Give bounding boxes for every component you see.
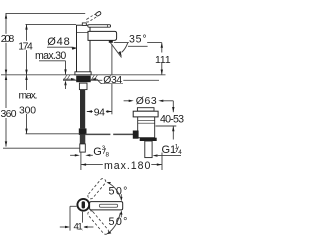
label 174 (17, 41, 34, 50)
node: arrow down tip at deck (line B above) (25, 70, 27, 75)
node: arrow up tip at 174 line (25, 24, 27, 29)
spout (88, 31, 117, 40)
35° angle: flow direction line (110, 42, 122, 58)
label 360 (0, 108, 18, 118)
wire: dimension line A (208 above deck / 360 below deck) (5, 13, 7, 146)
waste tailpipe G1 1/4 (145, 141, 152, 158)
node: cartridge cap seam (77, 32, 91, 34)
dimension 94 (87, 111, 112, 113)
label 35° (129, 35, 147, 44)
hex connector at hose end (79, 128, 87, 135)
dimension Ø34: right arrow and leader (91, 78, 96, 80)
deck hatching left (64, 75, 71, 81)
node: arrow down tip at short hose line (25, 129, 27, 134)
label 208 (0, 34, 15, 43)
deck (counter) top line (1, 74, 166, 76)
lever rotated +50° up (dashed) (87, 178, 107, 200)
dimension 40-53 bottom segment (156, 125, 177, 127)
wire: extension line top (208 level) (6, 12, 86, 14)
svg-text:50°: 50° (109, 186, 128, 198)
label 94 (93, 107, 106, 116)
dimension 111 (spout outlet above deck) (161, 43, 163, 75)
mounting nut below deck (76, 76, 91, 83)
dimension arrows at G3/8 fitting (70, 154, 76, 156)
dimension Ø63: left arrow (124, 100, 131, 102)
node: max30 arrow below deck pointing up (64, 80, 66, 85)
supply block under nut (79, 83, 87, 90)
svg-text:40-53: 40-53 (160, 113, 184, 125)
wire: long hose reference line (360 level) (3, 147, 80, 149)
lever slot (dark) (82, 201, 85, 208)
svg-text:Ø63: Ø63 (136, 96, 157, 107)
lever rotated 50° down (dashed) (87, 210, 110, 236)
node: arrow down tip at deck (line A above) (5, 70, 7, 75)
waste bottom nut (140, 138, 157, 141)
svg-text:Ø48: Ø48 (47, 36, 70, 48)
svg-text:Ø34: Ø34 (103, 75, 122, 86)
lever width dimension arrows at tip (120, 194, 122, 197)
node: lever pivot bump (82, 23, 86, 26)
node: arrow up tip at 208 line (5, 13, 7, 18)
base flange above deck (75, 72, 91, 75)
svg-text:max.: max. (19, 91, 38, 102)
pop-up waste pull rod (85, 133, 110, 135)
pop-up waste flange (133, 111, 158, 117)
svg-text:max.30: max.30 (35, 50, 66, 62)
dimension 41 extension lines (70, 205, 77, 207)
dimension Ø63: right arrow, leader to 40-53 (158, 100, 163, 102)
label 111 (154, 53, 172, 64)
svg-text:max.180: max.180 (104, 160, 150, 172)
node: arrow down tip at hose end line (5, 141, 7, 146)
cartridge circle (top view) (77, 199, 89, 211)
swing arc down with arrowheads (107, 213, 120, 234)
svg-text:360: 360 (1, 109, 17, 120)
label Ø34 (102, 76, 123, 84)
svg-text:8: 8 (106, 151, 110, 158)
dimension 40-53 top segment (172, 101, 174, 112)
svg-text:208: 208 (1, 34, 15, 45)
aerator (mousseur) (109, 40, 113, 42)
svg-text:300: 300 (19, 106, 36, 117)
svg-text:94: 94 (94, 108, 105, 119)
svg-text:4: 4 (178, 149, 182, 156)
hose end fitting (dark) (80, 135, 86, 144)
lever handle raised 35° (dashed) (86, 11, 102, 23)
label 41 (72, 223, 84, 231)
pop-up waste plug (137, 108, 154, 112)
wire: short hose reference line (max300 level) (26, 133, 81, 135)
dimension Ø34: left arrow (63, 78, 73, 80)
deck bottom line (63, 79, 159, 81)
faucet body (side view) (77, 25, 91, 72)
wire: short second reference line (128, 45, 148, 47)
swing arc up with arrowheads (108, 183, 121, 198)
svg-text:41: 41 (74, 222, 83, 233)
node: arrowhead on flow line (118, 51, 121, 57)
rod boss on waste body (133, 131, 139, 139)
pop-up waste body (138, 117, 155, 138)
wire: dimension line B (174 above deck / max300 below deck) (26, 24, 28, 133)
node: arrow up tip at deck (line B below) (25, 75, 27, 80)
node: arrow up tip at deck (line A below) (5, 75, 7, 80)
dimension 41 arrows (60, 226, 67, 228)
node: angle arc (122, 43, 128, 53)
svg-text:174: 174 (18, 41, 33, 52)
svg-text:35°: 35° (129, 34, 147, 46)
deck hatching right (91, 75, 98, 81)
threaded shank / hoses column (80, 90, 85, 129)
svg-text:50°: 50° (109, 216, 128, 228)
svg-text:111: 111 (155, 55, 171, 66)
hose end fitting G3/8 (light) (80, 144, 86, 152)
wire: horizontal angle reference line (114, 42, 162, 44)
label max.180 (103, 160, 152, 170)
wire: extension line (174 level) (26, 23, 77, 25)
dimension max.180 (80, 152, 82, 170)
lever handle top view (solid) (90, 202, 123, 210)
lever handle (horizontal position) (88, 25, 111, 28)
label max. 300 (18, 90, 39, 114)
wire: spout tip extension line down to 94 dimension (111, 44, 113, 75)
svg-text:G: G (93, 146, 102, 158)
